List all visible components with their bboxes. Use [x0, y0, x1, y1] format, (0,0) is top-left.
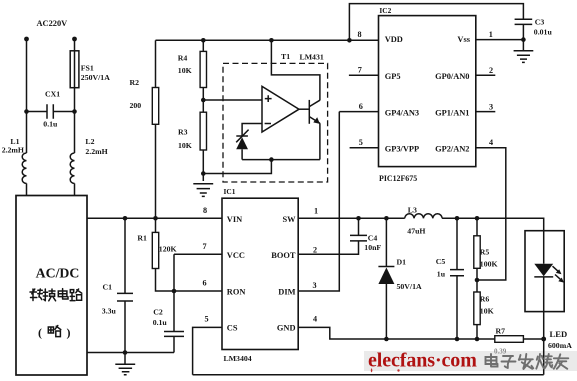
svg-text:5: 5 — [359, 138, 363, 147]
svg-text:0.1u: 0.1u — [153, 318, 168, 327]
ground under C3 — [514, 40, 534, 63]
svg-text:GP4/AN3: GP4/AN3 — [385, 109, 419, 118]
wire AC line right upper — [74, 39, 76, 153]
LED emission arrows — [553, 266, 565, 282]
wire GP2 feedback riser — [476, 148, 506, 280]
wire top rail drop to R2 — [155, 40, 157, 87]
wire GP1 stub — [476, 111, 496, 113]
wire R1 bottom to RON line — [156, 269, 223, 292]
svg-text:2.2mH: 2.2mH — [2, 146, 24, 155]
svg-text:(: ( — [38, 326, 42, 340]
wire SW node line — [298, 217, 544, 219]
svg-text:AC220V: AC220V — [37, 19, 68, 28]
svg-text:200: 200 — [130, 101, 142, 110]
wire T1 cathode riser — [271, 40, 320, 100]
svg-text:D1: D1 — [397, 258, 407, 267]
node AC terminal left — [24, 37, 29, 42]
junction R7/LED/CS node — [541, 337, 546, 342]
svg-text:CX1: CX1 — [45, 90, 60, 99]
svg-text:FS1: FS1 — [81, 64, 94, 73]
wire top rail — [156, 39, 350, 41]
svg-text:6: 6 — [203, 278, 207, 287]
svg-text:R3: R3 — [178, 128, 188, 137]
svg-text:250V/1A: 250V/1A — [81, 73, 110, 82]
svg-text:IC2: IC2 — [379, 6, 391, 15]
junction R6 bottom — [475, 337, 480, 342]
svg-text:10K: 10K — [178, 141, 192, 150]
junction C1 bottom — [123, 350, 128, 355]
svg-text:600mA: 600mA — [548, 341, 572, 350]
wire GP4 pin line — [339, 111, 378, 113]
capacitor C1 — [102, 218, 133, 352]
svg-text:0.1u: 0.1u — [43, 120, 58, 129]
svg-text:1u: 1u — [437, 269, 446, 278]
svg-text:2: 2 — [489, 66, 493, 75]
ground under C1 — [115, 353, 135, 375]
junction C5 top — [455, 216, 460, 221]
resistor R2 — [130, 78, 159, 125]
junction feedback divider node — [475, 278, 480, 283]
svg-text:10K: 10K — [178, 66, 192, 75]
svg-text:C2: C2 — [153, 307, 163, 316]
junction D1 cathode on SW line — [384, 216, 389, 221]
svg-text:4: 4 — [313, 315, 317, 324]
svg-text:C5: C5 — [436, 257, 446, 266]
buck LED driver IC1 LM3404 body — [222, 198, 298, 349]
svg-text:Vss: Vss — [457, 35, 470, 44]
svg-text:6: 6 — [359, 102, 363, 111]
wire anode to ground node — [203, 160, 271, 174]
wire VIN rail to R1 — [155, 218, 157, 232]
svg-text:): ) — [67, 326, 71, 340]
zener diode reference — [236, 130, 248, 160]
svg-text:GND: GND — [277, 323, 296, 332]
svg-text:R2: R2 — [130, 78, 140, 87]
svg-text:IC1: IC1 — [224, 187, 236, 196]
junction C4 top — [356, 216, 361, 221]
svg-text:1: 1 — [314, 206, 318, 215]
inductor L2 — [70, 137, 108, 183]
wire R4 to R3 — [202, 88, 204, 113]
transistor output of T1 — [299, 100, 320, 160]
capacitor C4 — [298, 218, 381, 254]
resistor R4 — [178, 40, 207, 87]
wire T1 anode link — [242, 159, 320, 161]
wire CS sense bottom rail — [193, 374, 544, 376]
svg-text:L3: L3 — [408, 206, 417, 215]
svg-text:BOOT: BOOT — [271, 251, 296, 260]
svg-text:C3: C3 — [535, 17, 545, 26]
svg-text:100K: 100K — [480, 260, 498, 269]
op-amp comparator inside T1 — [262, 86, 299, 132]
AC/DC converter block — [16, 196, 87, 376]
junction R5 top — [475, 216, 480, 221]
watermark hanzi you — [554, 354, 569, 369]
junction CX1 left — [24, 109, 29, 114]
wire VDD pin and riser to top line — [349, 4, 523, 41]
svg-text:LM3404: LM3404 — [224, 354, 252, 363]
svg-text:VIN: VIN — [227, 215, 242, 224]
svg-text:DIM: DIM — [278, 288, 295, 297]
svg-text:RON: RON — [227, 288, 246, 297]
LED module box — [525, 231, 564, 312]
junction VDD riser on top rail — [347, 38, 352, 43]
junction T1 cathode on top rail — [269, 38, 274, 43]
wire ground rail lower-left — [87, 352, 174, 354]
capacitor C2 — [153, 307, 184, 352]
svg-text:L2: L2 — [85, 137, 94, 146]
wire L1 to box — [26, 183, 28, 196]
wire L2 to box — [74, 183, 76, 196]
svg-text:120K: 120K — [159, 245, 177, 254]
watermark strip background — [364, 351, 577, 371]
junction C5 bottom — [455, 337, 460, 342]
svg-text:8: 8 — [203, 206, 207, 215]
junction VCC/C2 on RON line — [172, 289, 177, 294]
junction R2/R1 node on VIN rail — [153, 216, 158, 221]
svg-text:10K: 10K — [480, 307, 494, 316]
capacitor C3 — [515, 17, 553, 39]
svg-text:GP2/AN2: GP2/AN2 — [435, 145, 469, 154]
wire LED cathode to sense node — [543, 312, 545, 375]
svg-text:1: 1 — [489, 30, 493, 39]
inductor L3 — [405, 206, 442, 236]
junction C1 top — [123, 216, 128, 221]
svg-text:C4: C4 — [368, 234, 378, 243]
capacitor C5 — [436, 218, 464, 339]
LED diode symbol — [534, 231, 553, 312]
watermark hanzi shao — [536, 354, 552, 369]
resistor R5 — [474, 218, 498, 268]
svg-text:3.3u: 3.3u — [102, 307, 117, 316]
watermark hanzi fa — [519, 354, 534, 369]
wire GP5 stub — [349, 74, 379, 76]
watermark hanzi dian — [486, 354, 498, 367]
microcontroller IC2 PIC12F675 body — [379, 16, 476, 167]
svg-text:4: 4 — [489, 138, 493, 147]
svg-text:0.39: 0.39 — [494, 347, 507, 355]
svg-text:GP5: GP5 — [385, 72, 401, 81]
svg-text:3: 3 — [313, 281, 317, 290]
wire AC line left upper — [26, 39, 28, 153]
svg-text:SW: SW — [282, 215, 296, 224]
svg-text:R6: R6 — [480, 295, 490, 304]
svg-text:VDD: VDD — [385, 35, 403, 44]
svg-text:R1: R1 — [137, 234, 147, 243]
diode D1 freewheel — [378, 218, 422, 339]
svg-text:AC/DC: AC/DC — [36, 266, 80, 281]
fuse FS1 — [70, 51, 110, 88]
resistor R3 — [178, 112, 207, 150]
capacitor CX1 — [27, 90, 75, 129]
junction anode exit — [269, 157, 274, 162]
svg-text:VCC: VCC — [227, 251, 245, 260]
resistor R6 — [474, 268, 494, 339]
wire Vss pin line — [476, 39, 524, 41]
node AC terminal right — [72, 37, 77, 42]
svg-text:0.01u: 0.01u — [534, 28, 553, 37]
svg-text:3: 3 — [489, 102, 493, 111]
svg-text:5: 5 — [205, 315, 209, 324]
ground under R3 — [193, 184, 213, 197]
wire GP3 stub — [350, 147, 379, 149]
junction D1 anode on ground rail — [384, 337, 389, 342]
svg-text:C1: C1 — [103, 283, 113, 292]
svg-text:8: 8 — [358, 30, 362, 39]
wire minus input to zener — [242, 124, 262, 137]
resistor R7 — [494, 327, 544, 356]
svg-text:elecfans·com: elecfans·com — [368, 350, 477, 372]
wire CS pin to sense rail — [193, 327, 222, 374]
svg-text:10nF: 10nF — [364, 243, 381, 252]
wire LED output drop — [442, 218, 544, 230]
junction CX1 right — [72, 109, 77, 114]
wire R2 bottom to VIN rail — [155, 124, 157, 218]
junction plus-input node — [201, 98, 206, 103]
inductor L1 — [2, 137, 27, 183]
svg-text:R7: R7 — [496, 327, 506, 336]
svg-text:7: 7 — [358, 66, 362, 75]
svg-text:CS: CS — [227, 323, 238, 332]
svg-text:T1: T1 — [281, 52, 290, 61]
svg-text:PIC12F675: PIC12F675 — [379, 174, 417, 183]
watermark hanzi zi — [502, 356, 516, 368]
junction R3 ground node — [201, 171, 206, 176]
svg-text:50V/1A: 50V/1A — [397, 282, 422, 291]
svg-text:LED: LED — [550, 329, 568, 339]
junction R4 top on rail — [201, 38, 206, 43]
svg-text:GP0/AN0: GP0/AN0 — [435, 72, 469, 81]
wire DIM to GP4 riser — [298, 112, 339, 291]
watermark red drips — [371, 368, 373, 373]
svg-text:2.2mH: 2.2mH — [85, 147, 107, 156]
svg-text:2: 2 — [313, 246, 317, 255]
wire R3 bottom to ground node — [202, 150, 204, 181]
wire plus input to comparator — [203, 99, 262, 101]
label hanzi zhuan-huan-dian-lu (converter circuit) — [30, 289, 82, 301]
svg-text:R5: R5 — [480, 248, 490, 257]
svg-text:GP3/VPP: GP3/VPP — [385, 145, 419, 154]
wire VCC line — [174, 254, 222, 291]
svg-text:R4: R4 — [178, 54, 188, 63]
wire GP0 stub — [476, 74, 496, 76]
svg-text:LM431: LM431 — [300, 53, 324, 62]
svg-text:47uH: 47uH — [407, 227, 425, 236]
svg-text:GP1/AN1: GP1/AN1 — [435, 109, 469, 118]
wire VIN rail — [87, 217, 222, 219]
svg-text:7: 7 — [203, 242, 207, 251]
junction C3 bottom — [521, 37, 526, 42]
wire GND pin step — [298, 327, 495, 339]
wire C2 vertical — [173, 291, 175, 332]
resistor R1 — [137, 232, 176, 268]
shunt regulator U T1 LM431 dashed outline — [223, 52, 328, 182]
